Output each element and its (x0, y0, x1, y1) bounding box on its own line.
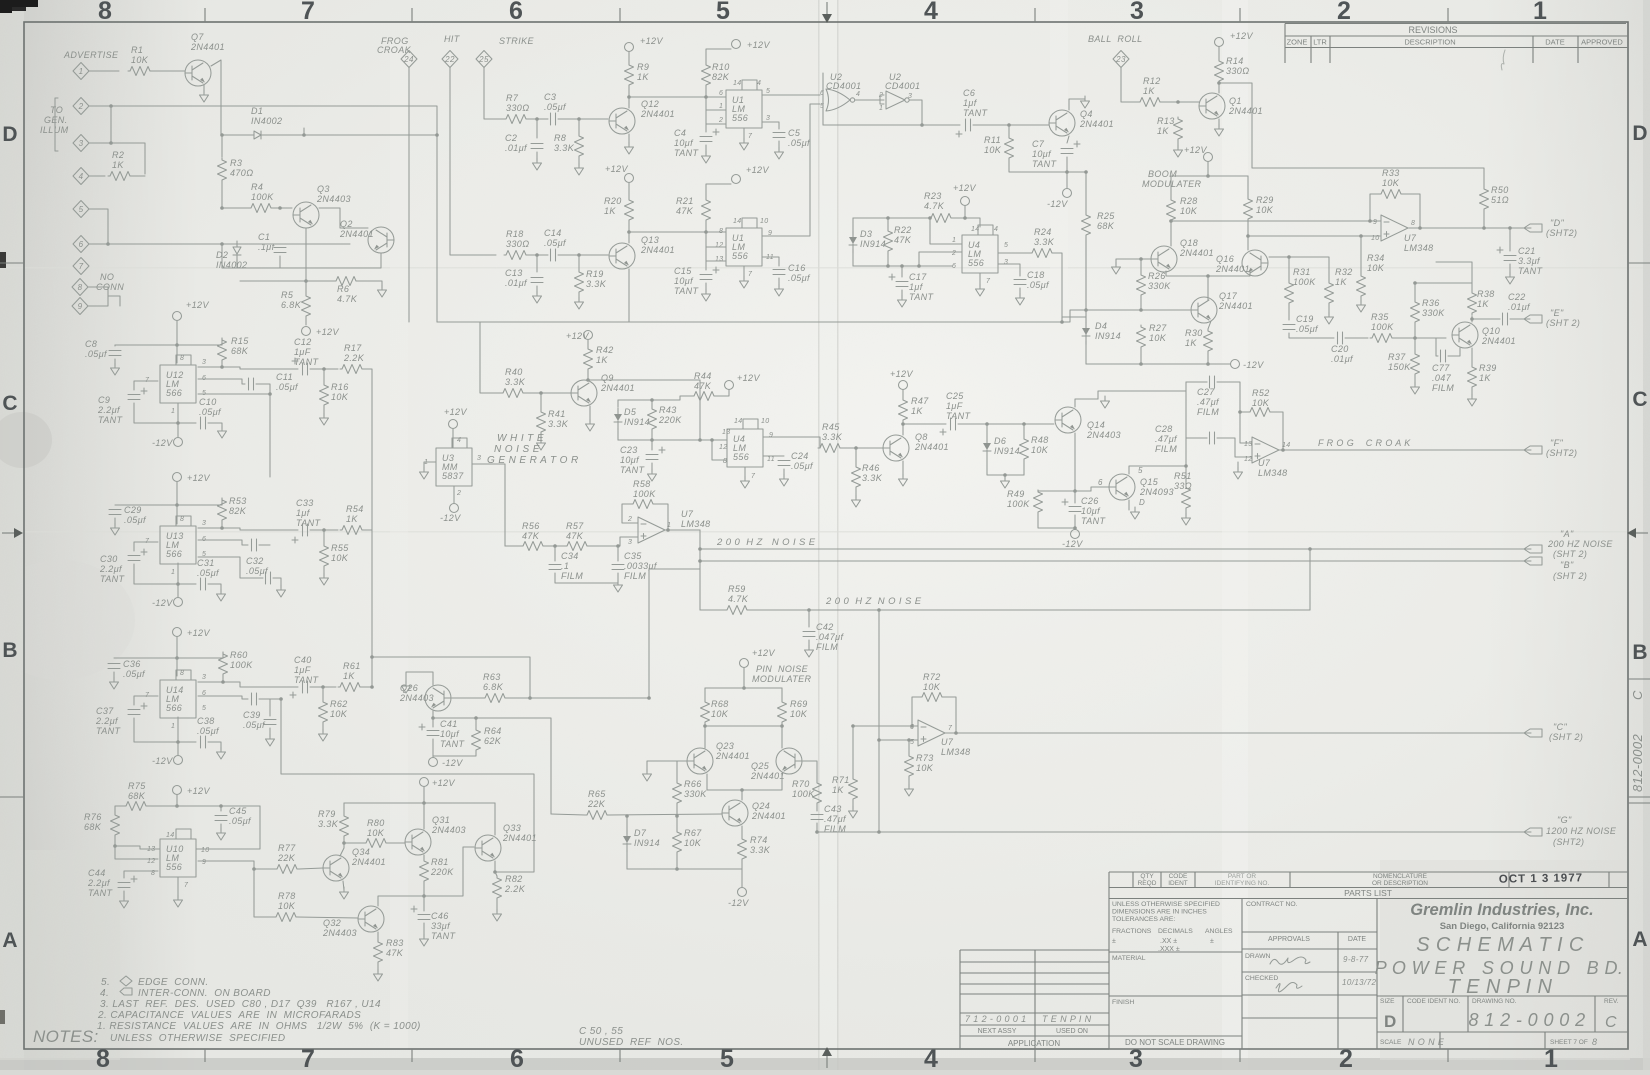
svg-text:2N4401: 2N4401 (1079, 119, 1114, 129)
wire (1019, 288, 1021, 296)
svg-text:1μf: 1μf (963, 98, 978, 108)
svg-text:1K: 1K (1335, 277, 1347, 287)
ground (702, 289, 711, 301)
junction (900, 264, 904, 268)
resistor R77 (275, 865, 299, 874)
junction (710, 438, 714, 442)
svg-text:C44: C44 (88, 868, 106, 878)
junction (698, 547, 702, 551)
svg-text:10K: 10K (367, 828, 385, 838)
wire (432, 739, 434, 757)
capacitor C21 (1504, 256, 1516, 261)
svg-text:220K: 220K (658, 415, 682, 425)
wire (1471, 316, 1473, 322)
svg-text:330K: 330K (1422, 308, 1445, 318)
wire (453, 486, 455, 503)
capacitor C43 (811, 815, 823, 820)
junction (1418, 226, 1422, 230)
resistor R60 (219, 652, 228, 676)
edge connector 8 (72, 279, 88, 296)
wire (1472, 318, 1500, 320)
svg-text:SHEET 7 OF: SHEET 7 OF (1550, 1039, 1588, 1046)
wire (700, 439, 727, 441)
wire (705, 145, 707, 154)
junction (175, 343, 179, 347)
wire (177, 877, 179, 898)
svg-text:2N4401: 2N4401 (600, 383, 635, 393)
wire (705, 283, 707, 292)
wire (310, 686, 336, 688)
wire (1289, 257, 1329, 281)
junction (1176, 100, 1180, 104)
capacitor C19 (1283, 325, 1295, 330)
resistor R4 (249, 204, 273, 213)
title block main (1109, 899, 1628, 1050)
interconnect C (1524, 729, 1542, 737)
svg-text:1μF: 1μF (294, 665, 311, 675)
svg-text:6.8K: 6.8K (483, 682, 504, 692)
svg-text:10K: 10K (330, 709, 348, 719)
capacitor C38 (201, 736, 206, 748)
svg-text:2.2K: 2.2K (504, 884, 526, 894)
wire (588, 380, 700, 434)
svg-text:NEXT ASSY: NEXT ASSY (978, 1028, 1017, 1035)
svg-text:C9: C9 (98, 395, 110, 405)
ground (533, 158, 542, 170)
wire (148, 805, 260, 807)
wire (406, 672, 433, 685)
wire (323, 407, 325, 416)
svg-text:14: 14 (733, 218, 742, 225)
junction (1169, 219, 1173, 223)
wire (273, 578, 281, 588)
junction (854, 446, 858, 450)
wire (114, 359, 116, 366)
svg-text:IDENT: IDENT (1168, 880, 1188, 887)
wire (783, 469, 785, 477)
svg-text:10K: 10K (1256, 205, 1274, 215)
svg-text:-12V: -12V (152, 438, 173, 448)
svg-text:100K: 100K (792, 789, 815, 799)
wire (89, 106, 111, 143)
ground (111, 363, 120, 375)
svg-text:Gremlin Industries, Inc.: Gremlin Industries, Inc. (1410, 901, 1593, 919)
wire (208, 584, 221, 592)
wire (545, 545, 565, 547)
svg-text:N O N E: N O N E (1408, 1037, 1445, 1047)
svg-text:GEN.: GEN. (44, 115, 68, 125)
wire (930, 218, 962, 244)
svg-text:R55: R55 (331, 543, 349, 553)
svg-text:.05μf: .05μf (1296, 324, 1319, 334)
svg-text:TO: TO (50, 105, 63, 115)
svg-text:1μF: 1μF (946, 401, 963, 411)
wire (998, 264, 1020, 276)
resistor R44 (692, 392, 716, 401)
wire (958, 423, 1054, 425)
ground (852, 495, 861, 507)
svg-text:(SHT2): (SHT2) (1553, 837, 1584, 847)
scale row (1440, 1032, 1545, 1049)
svg-text:8: 8 (180, 516, 184, 523)
junction (431, 716, 435, 720)
svg-text:C13: C13 (505, 268, 523, 278)
svg-text:100K: 100K (1293, 277, 1316, 287)
wire (176, 637, 178, 658)
svg-text:TANT: TANT (1032, 159, 1058, 169)
capacitor C7 (1061, 149, 1073, 154)
svg-text:556: 556 (166, 862, 182, 872)
wire (208, 423, 222, 429)
svg-text:R83: R83 (386, 938, 404, 948)
wire (305, 228, 307, 268)
interconnect G (1524, 828, 1542, 836)
resistor R26 (1137, 273, 1146, 297)
svg-text:FILM: FILM (816, 642, 838, 652)
svg-text:R40: R40 (505, 367, 523, 377)
interconnect F (1524, 446, 1542, 454)
svg-text:+12V: +12V (187, 628, 210, 638)
junction (1139, 308, 1143, 312)
wire (651, 440, 653, 450)
resistor R34 (1357, 274, 1366, 298)
wire (944, 697, 956, 733)
+12V supply (584, 331, 593, 340)
gate U2 CD4001 nor (826, 89, 850, 111)
svg-text:R41: R41 (548, 409, 566, 419)
wire (480, 322, 501, 393)
svg-text:R58: R58 (633, 479, 651, 489)
wire (1217, 438, 1252, 457)
svg-text:FILM: FILM (1197, 407, 1219, 417)
svg-text:.05μf: .05μf (243, 720, 266, 730)
junction (1246, 234, 1250, 238)
wire (220, 824, 222, 831)
svg-text:"E": "E" (1550, 308, 1564, 318)
wire (423, 923, 425, 937)
wire (358, 281, 382, 288)
junction (1139, 257, 1143, 261)
svg-text:R72: R72 (923, 672, 941, 682)
svg-text:10K: 10K (711, 709, 729, 719)
svg-text:6: 6 (952, 263, 956, 270)
svg-text:3.3K: 3.3K (318, 819, 339, 829)
wire (741, 861, 743, 869)
ground (1112, 262, 1121, 274)
svg-text:3.3K: 3.3K (554, 143, 575, 153)
wire (540, 434, 542, 441)
svg-text:2N4401: 2N4401 (339, 229, 374, 239)
wire (1140, 297, 1142, 310)
svg-text:2.2μf: 2.2μf (87, 878, 111, 888)
wire (452, 429, 454, 448)
junction (342, 841, 346, 845)
wire (626, 816, 628, 834)
svg-text:.05μf: .05μf (791, 461, 814, 471)
wire (343, 803, 345, 814)
resistor R28 (1167, 198, 1176, 222)
zone ticks top (205, 8, 1448, 22)
svg-text:3.3K: 3.3K (586, 279, 607, 289)
svg-text:3: 3 (628, 539, 632, 546)
svg-text:10K: 10K (790, 709, 808, 719)
capacitor C2 (531, 144, 543, 149)
IC U13 LM566 (160, 526, 196, 564)
wire (343, 881, 344, 890)
svg-text:DATE: DATE (1545, 38, 1564, 47)
wire (901, 290, 903, 298)
svg-text:22: 22 (444, 55, 455, 64)
ground (340, 887, 349, 899)
ground (120, 896, 129, 908)
200hz wire A (700, 548, 1531, 550)
edge connector 4 (73, 168, 89, 185)
resistor R43 (648, 407, 657, 431)
capacitor C10 (201, 417, 206, 429)
svg-text:23: 23 (1115, 55, 1126, 64)
IC U12 LM566 (160, 365, 196, 403)
svg-text:D4: D4 (1095, 321, 1107, 331)
svg-text:556: 556 (732, 251, 748, 261)
wire (1237, 462, 1239, 470)
resistor R35 (1370, 334, 1394, 343)
capacitor C12 (303, 363, 308, 375)
svg-text:R25: R25 (1097, 211, 1115, 221)
junction (176, 421, 180, 425)
capacitor C29 (109, 510, 121, 515)
ground (643, 769, 652, 781)
wire (1121, 67, 1138, 102)
resistor R9 (625, 63, 634, 87)
svg-text:R60: R60 (230, 650, 248, 660)
svg-text:2N4401: 2N4401 (914, 442, 949, 452)
wire (706, 109, 726, 111)
svg-text:C6: C6 (963, 88, 975, 98)
svg-text:1: 1 (952, 237, 956, 244)
wire (1361, 235, 1377, 237)
svg-text:-12V: -12V (728, 898, 749, 908)
junction (1084, 170, 1088, 174)
wire (617, 546, 619, 561)
svg-text:NOMENCLATURE: NOMENCLATURE (1373, 873, 1428, 880)
svg-text:C5: C5 (788, 128, 801, 138)
wire (177, 563, 179, 597)
wire (705, 687, 782, 689)
svg-text:5: 5 (766, 88, 770, 95)
svg-text:4: 4 (457, 437, 461, 444)
svg-text:2N4401: 2N4401 (502, 833, 537, 843)
wire (433, 752, 476, 756)
svg-text:7: 7 (751, 473, 756, 480)
svg-text:6: 6 (719, 90, 723, 97)
junction (1065, 170, 1069, 174)
wire (1471, 348, 1473, 365)
svg-text:+12V: +12V (747, 40, 770, 50)
wire (423, 787, 425, 803)
resistor R19 (575, 270, 584, 294)
wire (1448, 348, 1460, 356)
wire (1414, 283, 1416, 290)
svg-text:11: 11 (767, 456, 775, 463)
svg-text:TANT: TANT (296, 518, 322, 528)
wire (822, 73, 824, 125)
svg-text:R13: R13 (1157, 116, 1175, 126)
junction (703, 724, 707, 728)
wire (853, 265, 952, 267)
junction (698, 438, 702, 442)
resistor R37 (1411, 352, 1420, 376)
+12V supply (173, 473, 182, 482)
resistor R53 (218, 498, 227, 522)
wire (706, 49, 731, 63)
wire (221, 338, 223, 345)
wire (1008, 125, 1010, 136)
wire (716, 390, 729, 396)
svg-text:TANT: TANT (946, 411, 972, 421)
svg-text:100K: 100K (230, 660, 253, 670)
capacitor C36 (108, 664, 120, 669)
wire (803, 761, 817, 781)
+12V supply (899, 381, 908, 390)
svg-text:.01μf: .01μf (1331, 354, 1354, 364)
svg-text:R76: R76 (84, 812, 102, 822)
diode D6 (983, 437, 991, 459)
transistor Q17 (1191, 297, 1217, 323)
IC U3 MM5837 (436, 448, 472, 486)
junction (1308, 547, 1312, 551)
svg-text:C15: C15 (674, 266, 692, 276)
svg-text:DRAWING NO.: DRAWING NO. (1472, 998, 1517, 1005)
svg-text:DESCRIPTION: DESCRIPTION (1404, 38, 1455, 47)
svg-text:CODE IDENT NO.: CODE IDENT NO. (1407, 998, 1461, 1005)
wire (1409, 227, 1531, 229)
svg-text:C: C (2, 392, 17, 415)
capacitor C3 (551, 113, 556, 125)
resistor R68 (701, 700, 710, 724)
svg-text:14: 14 (971, 226, 980, 233)
svg-text:566: 566 (166, 388, 182, 398)
wire (1129, 466, 1186, 474)
resistor R14 (1215, 59, 1224, 83)
wire (704, 724, 706, 748)
ground (420, 934, 429, 946)
wire (1247, 176, 1249, 197)
junction (877, 608, 881, 612)
wire (269, 728, 271, 737)
junction (1359, 234, 1363, 238)
wire (879, 740, 909, 754)
svg-text:47K: 47K (694, 381, 712, 391)
wire (198, 676, 223, 682)
svg-text:U7: U7 (1404, 233, 1417, 243)
junction (370, 655, 374, 659)
scan washes (820, 0, 837, 1070)
ground (849, 806, 858, 818)
svg-text:7: 7 (986, 278, 991, 285)
transistor Q4 (1049, 110, 1075, 136)
wire (1436, 262, 1472, 283)
wire (1509, 264, 1511, 275)
svg-text:FILM: FILM (1155, 444, 1177, 454)
wire (372, 657, 530, 698)
svg-text:N O I S E: N O I S E (494, 444, 540, 455)
junction (907, 738, 911, 742)
wire (108, 296, 120, 306)
svg-text:2N4401: 2N4401 (1179, 248, 1214, 258)
edge marks (0, 0, 38, 7)
junction (650, 438, 654, 442)
capacitor C15 (700, 275, 712, 280)
resistor R23 (929, 214, 953, 223)
ground (320, 413, 329, 425)
wire (1471, 389, 1473, 397)
wire (377, 932, 379, 942)
transistor Q18 (1151, 246, 1177, 272)
svg-text:.01μf: .01μf (505, 278, 528, 288)
ground (277, 585, 286, 597)
svg-text:TANT: TANT (294, 357, 320, 367)
junction (675, 867, 679, 871)
wire (609, 814, 722, 815)
svg-text:FILM: FILM (624, 571, 646, 581)
junction (435, 133, 439, 137)
svg-text:C22: C22 (1508, 292, 1526, 302)
+12V supply (302, 327, 311, 336)
svg-text:+12V: +12V (187, 786, 210, 796)
wire (450, 67, 496, 255)
wire (778, 141, 780, 150)
capacitor C17 (896, 282, 908, 287)
svg-text:Q12: Q12 (641, 99, 659, 109)
wire (1414, 376, 1416, 385)
svg-text:(SHT2): (SHT2) (1546, 228, 1577, 238)
svg-text:Q31: Q31 (432, 815, 450, 825)
resistor R62 (319, 700, 328, 724)
svg-text:+12V: +12V (186, 300, 209, 310)
wire (340, 838, 344, 856)
junction (954, 731, 958, 735)
wire (629, 96, 726, 98)
-12V supply (450, 504, 459, 513)
svg-text:R20: R20 (604, 196, 622, 206)
svg-text:-12V: -12V (1243, 360, 1264, 370)
svg-text:IDENTIFYING NO.: IDENTIFYING NO. (1215, 880, 1270, 887)
wire (196, 806, 260, 849)
wire (651, 431, 653, 440)
transistor Q1 (1199, 93, 1225, 119)
svg-text:10: 10 (760, 218, 769, 225)
capacitor C16 (773, 270, 785, 275)
wire (89, 175, 105, 177)
capacitor C33 (303, 524, 308, 536)
svg-text:R22: R22 (894, 225, 912, 235)
wire (998, 252, 1030, 254)
svg-text:R19: R19 (586, 269, 604, 279)
wire (618, 439, 652, 441)
wire (903, 424, 946, 435)
svg-text:812-0002: 812-0002 (1630, 733, 1645, 792)
svg-text:47K: 47K (522, 531, 540, 541)
interconnect A (1524, 545, 1542, 553)
wire (979, 273, 981, 287)
svg-text:.05μf: .05μf (544, 238, 567, 248)
svg-text:.XX ±: .XX ± (1160, 938, 1177, 945)
svg-text:FILM: FILM (561, 571, 583, 581)
svg-text:3.3K: 3.3K (750, 845, 771, 855)
wire (495, 872, 497, 876)
svg-text:1: 1 (171, 569, 175, 576)
svg-text:C33: C33 (296, 498, 314, 508)
